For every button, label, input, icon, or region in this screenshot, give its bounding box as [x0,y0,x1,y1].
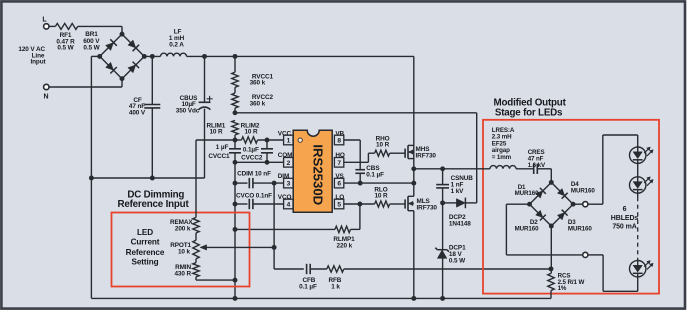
svg-text:3: 3 [287,181,291,188]
node bridge left [97,54,102,59]
wire VS [344,182,414,184]
svg-text:VB: VB [335,130,344,137]
svg-text:Reference: Reference [126,248,165,257]
svg-text:Input: Input [30,59,46,66]
wire HO [344,153,375,162]
inductor LF [161,28,187,56]
svg-text:1 µF: 1 µF [216,144,229,151]
node COM row CVCC2 [265,160,270,165]
resistor RMIN [174,263,199,280]
svg-text:N: N [44,94,49,101]
svg-text:1: 1 [287,138,291,145]
diode D1 MUR160 [515,184,539,197]
node VCC pin junction [265,138,270,143]
node RVCC top [233,54,238,59]
wire VS to output [414,168,443,170]
diode D3 MUR160 [568,219,592,232]
terminal L (line input) [42,17,49,30]
svg-text:360 k: 360 k [250,80,266,87]
svg-text:1N4148: 1N4148 [449,220,471,227]
label DC Dimming Reference Input [117,189,189,210]
label LED Current Reference Setting [126,228,165,267]
node DIM row left [233,181,238,186]
wire MLS source to bus [413,211,415,299]
svg-text:1 kV: 1 kV [451,188,465,195]
wire halfbridge mid [413,145,415,196]
pin 8 VB [334,130,344,144]
node LO RLMP [357,202,362,207]
wire L to RF1 [49,25,55,27]
node RLMP left [233,227,238,232]
svg-text:430 R: 430 R [174,271,191,278]
red box LED current reference [112,213,250,287]
capacitor CVCO [235,192,284,209]
wire bridge bottom to RCS [550,226,552,273]
svg-text:VCC: VCC [278,130,292,137]
dashed continuation [637,197,639,261]
node out bridge left [527,202,532,207]
svg-text:0.2 A: 0.2 A [169,41,184,48]
node RCS top [549,266,554,271]
wire bridge left to negative rail [91,56,99,298]
svg-text:1 k: 1 k [331,284,340,291]
label Modified Output Stage for LEDs [494,97,567,118]
resistor RLO [374,186,399,207]
svg-text:CVCO 0.1nF: CVCO 0.1nF [236,192,272,199]
svg-text:6: 6 [623,206,627,213]
svg-text:0.5 W: 0.5 W [57,45,74,52]
node DCP1 bus [440,296,445,301]
svg-text:200 k: 200 k [175,226,191,233]
pin 3 DIM [278,173,293,188]
resistor RF1 [55,23,77,51]
svg-text:DIM: DIM [278,173,289,180]
transistor MHS IRF730 [399,145,436,159]
node bridge bottom [120,76,125,81]
node ground bus tap [233,296,238,301]
svg-text:6: 6 [337,181,341,188]
node CBUS top [202,54,207,59]
node wiper junction [272,245,277,250]
svg-text:HO: HO [335,152,345,159]
capacitor CFB [299,264,327,291]
wire to pin VCC [258,139,284,141]
wire bridge right to LED terminal [573,203,583,205]
svg-text:10 R: 10 R [209,129,223,136]
svg-text:220 k: 220 k [337,242,353,249]
LED HBLED2 [630,177,654,193]
LED HBLED1 [630,147,654,163]
resistor RVCC1 [232,56,274,87]
svg-text:Setting: Setting [131,258,158,267]
node out bridge top [549,180,554,185]
op-amp U1 IRS2530D body [293,130,332,212]
svg-text:VS: VS [335,173,344,180]
wire dashed LED string [637,193,639,197]
diode DCP2 1N4148 [443,198,477,228]
wire bridge right to LF [144,55,160,57]
pin 4 VCO [278,194,293,209]
capacitor CF [129,56,160,178]
svg-text:10 R: 10 R [244,129,258,136]
node CSNUB tap [411,166,416,171]
svg-text:Reference Input: Reference Input [117,199,189,210]
red box output stage [483,120,659,294]
svg-text:CVCC2: CVCC2 [241,154,263,161]
capacitor CDIM [235,170,284,188]
wire LED3 return [588,255,638,291]
resistor RVCC2 [232,87,274,113]
inductor LRES:A [443,127,516,169]
label 6 HBLEDs 750 mA [611,206,639,230]
wire charge pump supply [235,113,477,203]
node bridge right [142,54,147,59]
zener DCP1 [435,203,466,299]
resistor RHO [375,135,399,156]
node VCC supply [233,110,238,115]
resistor RLIM1 [207,120,239,140]
svg-text:0.1µF: 0.1µF [243,146,259,153]
pin 5 LO [334,194,344,209]
pin 1 VCC [278,130,293,144]
svg-text:0.5 W: 0.5 W [449,257,466,264]
svg-text:400 V: 400 V [129,109,146,116]
bridge rectifier BR1 [83,31,144,78]
label 120 V AC Line Input [18,46,46,66]
node MLS bus [411,296,416,301]
svg-text:HBLEDs: HBLEDs [611,215,639,222]
svg-text:MUR160: MUR160 [571,188,595,195]
svg-text:2: 2 [287,160,291,167]
svg-text:MUR160: MUR160 [568,226,592,233]
pin 6 VS [334,173,344,188]
node out bridge right [571,202,576,207]
svg-text:0.1 µF: 0.1 µF [366,172,384,179]
terminal LED minus [583,252,588,257]
pin 2 COM [278,152,293,167]
svg-text:COM: COM [278,152,293,159]
svg-text:10 R: 10 R [374,193,388,200]
svg-text:CVCC1: CVCC1 [208,153,230,160]
svg-text:IRS2530D: IRS2530D [311,144,326,205]
svg-text:0.5 W: 0.5 W [83,44,100,51]
capacitor CBS [355,165,384,182]
svg-text:IRF730: IRF730 [416,152,437,159]
svg-text:0.1 µF: 0.1 µF [299,284,317,291]
wire FB left [274,268,304,270]
node RMIN bottom [233,278,238,283]
wire bottom bus [91,297,551,299]
wire CRES to bridge [550,169,552,183]
wire N to bridge bottom [49,79,122,87]
wire LO [344,203,375,205]
node CF bottom [150,176,155,181]
svg-text:360 k: 360 k [250,100,266,107]
svg-text:1%: 1% [558,285,567,292]
node VCC row left [233,138,238,143]
svg-text:4: 4 [287,202,291,209]
svg-text:10 R: 10 R [376,142,390,149]
wire RMIN bottom [196,279,235,281]
svg-text:MUR160: MUR160 [515,190,539,197]
capacitor CVCC2 [241,140,273,162]
output bridge D1-D4 [530,182,574,226]
resistor RCS [548,273,585,299]
LED HBLED3 [630,261,654,277]
wiper arrow RPOT1 [200,245,274,250]
svg-text:LED: LED [137,228,153,237]
svg-text:10 k: 10 k [178,248,191,255]
node out bridge bottom [549,224,554,229]
svg-text:7: 7 [337,160,341,167]
wire negative branch y178 [91,177,204,179]
node VS CBS [358,181,363,186]
node VS halfbridge [411,181,416,186]
node DIM row right [272,181,277,186]
transistor MLS IRF730 [399,196,437,211]
svg-text:CDIM 10 nF: CDIM 10 nF [237,170,271,177]
svg-text:Current: Current [131,238,160,247]
node VCO row left [233,202,238,207]
wire VCC row to REMAX feed [196,139,235,141]
svg-text:LO: LO [335,194,344,201]
svg-text:750 mA: 750 mA [612,223,636,230]
svg-text:5: 5 [337,202,341,209]
wire LED plus to string [588,135,638,204]
node bridge top [120,32,125,37]
wire signal ground vertical [234,162,236,298]
resistor REMAX [170,217,199,240]
wire DIM vertical [273,183,275,269]
terminal N (neutral input) [44,84,49,100]
wire LED1-LED2 [637,163,639,176]
svg-text:MUR160: MUR160 [515,226,539,233]
diode D2 MUR160 [515,219,539,232]
node COM row left [233,160,238,165]
wire DC bus top [187,56,414,145]
terminal LED plus [583,202,588,207]
svg-text:350 Vdc: 350 Vdc [176,107,200,114]
svg-text:= 1mm: = 1mm [492,154,512,161]
svg-text:VCO: VCO [278,194,292,201]
resistor RFB [327,266,344,291]
potentiometer RPOT1 [170,240,199,262]
resistor RLIM2 [235,122,260,143]
pin 7 HO [334,152,345,167]
node CF top [150,54,155,59]
wire VB [344,140,360,170]
svg-text:Stage for LEDs: Stage for LEDs [495,107,563,118]
svg-text:IRF730: IRF730 [417,205,438,212]
wire REMAX feed [195,140,197,217]
node DCP junction [440,200,445,205]
wire FB to RCS [344,268,551,270]
svg-text:8: 8 [337,138,341,145]
capacitor CRES [516,149,551,174]
node neg rail branch [89,176,94,181]
node CSNUB top [440,166,445,171]
svg-text:1.6 kV: 1.6 kV [528,162,546,169]
wire RF1 to bridge top [78,26,122,34]
capacitor CBUS (electrolytic) [176,56,213,178]
diode D4 MUR160 [571,181,595,194]
wire COM row [235,161,284,163]
wire bridge left to LED return [506,204,582,255]
capacitor CVCC1 [208,140,241,162]
resistor RLMP1 [235,204,360,249]
capacitor CSNUB [436,169,473,203]
